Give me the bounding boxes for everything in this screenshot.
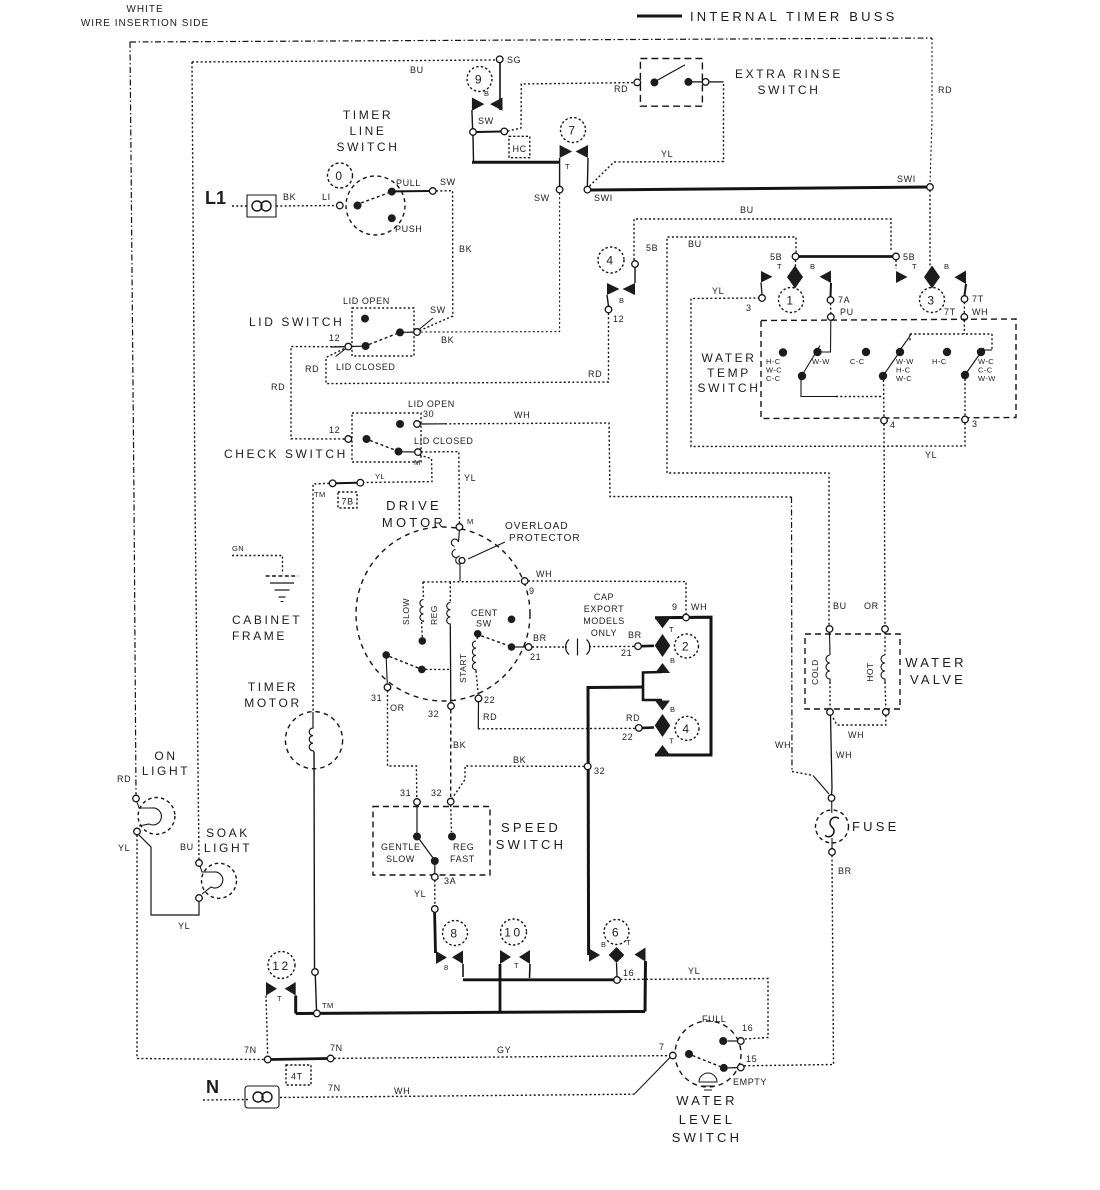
svg-text:START: START bbox=[458, 653, 468, 683]
svg-text:FAST: FAST bbox=[450, 854, 475, 864]
svg-text:RD: RD bbox=[483, 712, 497, 722]
node SG bbox=[496, 56, 503, 63]
node 32 (BK buss) bbox=[584, 763, 591, 770]
svg-text:6: 6 bbox=[612, 926, 621, 940]
svg-text:CAP: CAP bbox=[594, 592, 614, 602]
lid switch common contact and arm bbox=[331, 346, 345, 348]
timer contact number 12 bbox=[268, 952, 295, 979]
svg-text:SPEED: SPEED bbox=[501, 820, 561, 835]
svg-text:PULL: PULL bbox=[396, 178, 421, 188]
node: extra rinse left terminal RD bbox=[634, 79, 641, 86]
node 7T bbox=[961, 296, 968, 303]
internal timer buss: 7N link bbox=[271, 1059, 327, 1060]
svg-text:WH: WH bbox=[972, 307, 988, 317]
wire: BR from fuse to water level switch 15 bbox=[744, 855, 834, 1066]
svg-text:TIMER: TIMER bbox=[343, 108, 393, 122]
wire: 5B right node down to contact 3 bbox=[895, 260, 897, 269]
svg-text:12: 12 bbox=[613, 314, 624, 324]
wire: GN to cabinet frame ground bbox=[232, 556, 283, 575]
wire: WH from node 30 right and down bbox=[420, 423, 445, 425]
svg-text:7N: 7N bbox=[244, 1045, 257, 1055]
svg-text:YL: YL bbox=[712, 286, 724, 296]
svg-text:7N: 7N bbox=[330, 1043, 343, 1053]
svg-text:4T: 4T bbox=[291, 1072, 303, 1082]
svg-text:WH: WH bbox=[691, 602, 707, 612]
wire: section2 arm down to node 4 bbox=[883, 380, 886, 417]
svg-text:ON: ON bbox=[154, 749, 177, 763]
connector CO (N) bbox=[245, 1086, 279, 1108]
node 7N (right) bbox=[327, 1055, 334, 1062]
svg-text:MOTOR: MOTOR bbox=[244, 696, 301, 710]
internal timer buss: contact 2/4 frame bbox=[655, 617, 711, 755]
svg-text:LINE: LINE bbox=[349, 124, 386, 138]
timer cam contact 1 (triangle-diamond-triangle) bbox=[761, 271, 773, 283]
node TM a bbox=[329, 480, 336, 487]
svg-text:YL: YL bbox=[375, 472, 385, 481]
node SW2 bbox=[501, 128, 508, 135]
wire: WH cold valve down to fuse bbox=[831, 715, 833, 794]
svg-text:DRIVE: DRIVE bbox=[386, 498, 442, 513]
svg-text:5B: 5B bbox=[770, 252, 782, 262]
svg-text:3: 3 bbox=[746, 303, 752, 313]
svg-text:SWITCH: SWITCH bbox=[496, 837, 566, 852]
wire: OR from motor 31 to speed switch 31 bbox=[388, 691, 417, 799]
node 5B (contact 4 top) bbox=[632, 261, 639, 268]
node M (drive motor) bbox=[456, 524, 463, 531]
svg-text:RD: RD bbox=[305, 364, 319, 374]
svg-text:15: 15 bbox=[746, 1054, 757, 1064]
svg-text:BU: BU bbox=[180, 842, 194, 852]
node 16 (water level FULL) bbox=[738, 1038, 745, 1045]
wire: BK from connector to LI bbox=[276, 205, 336, 208]
timer cam contact 10 (bowtie) bbox=[500, 950, 511, 964]
wire: contact 10 right leg to 16 rail bbox=[529, 964, 532, 978]
svg-text:B: B bbox=[670, 656, 675, 665]
internal timer buss: 5B link bbox=[799, 255, 893, 258]
node SW (timer line switch output) bbox=[429, 188, 436, 195]
svg-text:LEVEL: LEVEL bbox=[679, 1112, 735, 1127]
wire: 7A to PU node bbox=[830, 303, 832, 313]
svg-text:M: M bbox=[414, 458, 421, 467]
node (fuse bottom) bbox=[829, 849, 836, 856]
fuse F1 bbox=[816, 810, 849, 843]
svg-text:5B: 5B bbox=[903, 252, 915, 262]
wire: RD diagonal from lid 12 down to contact 4 row bbox=[336, 349, 346, 357]
wire: YL from node 3 to contact 1 node 3 bbox=[691, 298, 965, 447]
wire: contact 7 right leg bbox=[586, 158, 589, 186]
node SW (under contact 7) bbox=[556, 186, 563, 193]
svg-text:TEMP: TEMP bbox=[707, 366, 751, 380]
node 30 bbox=[414, 421, 421, 428]
svg-text:N: N bbox=[206, 1077, 219, 1097]
wire: RD right side from top border down to SWI node bbox=[930, 38, 932, 184]
svg-text:32: 32 bbox=[428, 709, 439, 719]
REG winding bbox=[449, 582, 451, 602]
node 3 (water temp switch) bbox=[962, 416, 969, 423]
svg-text:EMPTY: EMPTY bbox=[733, 1077, 767, 1087]
svg-text:TIMER: TIMER bbox=[248, 680, 298, 694]
svg-text:BR: BR bbox=[628, 630, 642, 640]
node 12 (contact 4) bbox=[605, 306, 612, 313]
svg-text:T: T bbox=[277, 994, 282, 1003]
svg-text:1: 1 bbox=[786, 294, 795, 308]
wire: WH rail inside motor bbox=[423, 580, 522, 583]
wire: WH 7N row from connector to water level switch bbox=[280, 1094, 634, 1097]
svg-text:BU: BU bbox=[410, 65, 424, 75]
internal timer buss: SWI line to right side bbox=[591, 187, 927, 190]
svg-text:SW: SW bbox=[534, 193, 550, 203]
svg-text:SWITCH: SWITCH bbox=[698, 381, 761, 395]
internal timer buss: contact 9 to contact 7 bbox=[472, 161, 560, 164]
internal timer buss: BK from jog down to contact 6 bbox=[588, 687, 643, 955]
svg-text:5B: 5B bbox=[646, 243, 658, 253]
svg-text:7: 7 bbox=[659, 1042, 665, 1052]
svg-text:22: 22 bbox=[622, 732, 633, 742]
wire: YL from ON light to SOAK light bbox=[139, 835, 200, 916]
extra rinse switch box bbox=[640, 59, 702, 107]
node (cold valve bottom) bbox=[827, 709, 834, 716]
svg-text:SWITCH: SWITCH bbox=[672, 1130, 742, 1145]
svg-text:BK: BK bbox=[453, 740, 466, 750]
svg-text:VALVE: VALVE bbox=[910, 672, 966, 687]
node 21 (contact 2) bbox=[635, 643, 642, 650]
svg-text:YL: YL bbox=[178, 921, 190, 931]
node SWI right bbox=[927, 184, 934, 191]
svg-text:T: T bbox=[669, 737, 674, 746]
node 22 (contact 4) bbox=[636, 725, 643, 732]
wire link between SW nodes bbox=[476, 131, 501, 134]
node 7 (water level common) bbox=[670, 1052, 677, 1059]
svg-text:BR: BR bbox=[838, 866, 852, 876]
svg-text:T: T bbox=[777, 262, 782, 271]
wire: RD from SWI node down to contact 3 bbox=[929, 190, 931, 266]
svg-text:30: 30 bbox=[423, 409, 434, 419]
svg-text:T: T bbox=[912, 262, 917, 271]
internal timer buss: 16 rail bbox=[463, 978, 614, 981]
svg-text:LID CLOSED: LID CLOSED bbox=[336, 362, 396, 372]
timer cam contact 2 bbox=[655, 618, 670, 628]
node (hot valve bottom) bbox=[883, 709, 890, 716]
wire: L1 to connector CO bbox=[232, 205, 247, 207]
svg-text:WH: WH bbox=[775, 740, 791, 750]
svg-text:COLD: COLD bbox=[810, 659, 820, 685]
node 32 (drive motor) bbox=[448, 703, 455, 710]
timer cam contact 9 (bowtie) bbox=[472, 98, 485, 111]
node SW (lid switch output) bbox=[414, 329, 421, 336]
node YL (ON light) bbox=[134, 828, 141, 835]
node 12 (check switch) bbox=[345, 436, 352, 443]
svg-text:LIGHT: LIGHT bbox=[204, 841, 252, 855]
node 4 (water temp switch) bbox=[881, 417, 888, 424]
svg-text:RD: RD bbox=[938, 85, 952, 95]
svg-text:YL: YL bbox=[414, 889, 426, 899]
svg-text:SWITCH: SWITCH bbox=[758, 83, 821, 97]
svg-text:HC: HC bbox=[513, 144, 527, 154]
internal timer buss: TM rail bbox=[296, 1012, 645, 1014]
svg-text:INTERNAL TIMER BUSS: INTERNAL TIMER BUSS bbox=[690, 9, 897, 24]
svg-text:7: 7 bbox=[568, 124, 577, 138]
svg-text:SW: SW bbox=[476, 619, 492, 629]
wire: YL check switch M to drive motor M bbox=[421, 452, 460, 524]
svg-text:12: 12 bbox=[272, 959, 291, 973]
wire: node 32 to speed switch bbox=[452, 766, 584, 799]
node SWI bbox=[584, 186, 591, 193]
svg-text:7T: 7T bbox=[944, 307, 956, 317]
svg-text:SG: SG bbox=[507, 55, 521, 65]
svg-text:LI: LI bbox=[322, 192, 331, 202]
svg-text:T: T bbox=[669, 625, 674, 634]
svg-text:16: 16 bbox=[742, 1023, 753, 1033]
timer motor body bbox=[285, 712, 342, 769]
svg-text:W-W: W-W bbox=[812, 357, 830, 366]
svg-text:REG: REG bbox=[429, 605, 439, 625]
svg-text:10: 10 bbox=[504, 926, 523, 940]
wire: WH node 9 to contact 2 block bbox=[528, 581, 686, 614]
timer motor coil bbox=[309, 712, 314, 752]
overload protector bbox=[451, 530, 460, 564]
svg-text:RD: RD bbox=[271, 382, 285, 392]
check switch box bbox=[352, 413, 421, 462]
svg-text:HOT: HOT bbox=[865, 662, 875, 681]
svg-text:WATER: WATER bbox=[905, 655, 967, 670]
svg-text:2: 2 bbox=[682, 640, 691, 654]
svg-text:FULL: FULL bbox=[702, 1014, 726, 1024]
svg-text:3: 3 bbox=[972, 419, 978, 429]
connector HC bbox=[509, 136, 530, 157]
svg-text:OVERLOAD: OVERLOAD bbox=[505, 521, 569, 532]
svg-text:EXPORT: EXPORT bbox=[584, 604, 624, 614]
svg-text:16: 16 bbox=[623, 968, 634, 978]
timer contact number 7 bbox=[561, 118, 586, 143]
node 32 (speed switch) bbox=[447, 798, 454, 805]
svg-text:CABINET: CABINET bbox=[232, 613, 302, 627]
svg-text:TM: TM bbox=[322, 1001, 334, 1010]
svg-text:SWITCH: SWITCH bbox=[337, 140, 400, 154]
speed switch GENTLE/SLOW contact bbox=[416, 805, 418, 833]
svg-text:YL: YL bbox=[925, 450, 937, 460]
wire: BU upper run to contact 3 bbox=[634, 219, 891, 260]
node (hot valve top) bbox=[882, 626, 889, 633]
svg-text:9: 9 bbox=[475, 73, 484, 87]
timer contact number 6 bbox=[604, 920, 629, 945]
node 7A bbox=[827, 297, 834, 304]
node (fuse top) bbox=[828, 795, 835, 802]
svg-text:RD: RD bbox=[614, 84, 628, 94]
node: extra rinse right terminal bbox=[702, 79, 709, 86]
node TM b bbox=[357, 479, 364, 486]
node LI bbox=[337, 202, 344, 209]
capacitor (cap export models only) bbox=[532, 646, 567, 648]
svg-text:WHITE: WHITE bbox=[126, 4, 163, 15]
svg-text:YL: YL bbox=[464, 473, 476, 483]
svg-text:22: 22 bbox=[484, 695, 495, 705]
wire: contact 12 left leg down to 7N node bbox=[266, 996, 268, 1057]
wire: TM down to timer motor bbox=[313, 483, 329, 712]
svg-text:BR: BR bbox=[533, 633, 547, 643]
wire: BU lower run to contact 1 and water valve bbox=[667, 237, 829, 625]
svg-text:T: T bbox=[626, 938, 631, 947]
water level switch body bbox=[675, 1021, 741, 1087]
svg-text:BK: BK bbox=[459, 244, 472, 254]
node (cold valve top) bbox=[826, 626, 833, 633]
svg-text:LIGHT: LIGHT bbox=[142, 764, 190, 778]
timer contact number 3 bbox=[920, 288, 945, 313]
wire: SG down to contact 9 bbox=[499, 63, 501, 110]
wire: contact 1 left leg to node 3 bbox=[761, 283, 762, 295]
node 21 (drive motor) bbox=[525, 644, 532, 651]
svg-text:WH: WH bbox=[836, 750, 852, 760]
svg-text:LID OPEN: LID OPEN bbox=[408, 399, 455, 409]
svg-text:ONLY: ONLY bbox=[591, 628, 617, 638]
wire: YL from 3A down to contact 8 bbox=[434, 880, 436, 905]
lid switch box bbox=[352, 308, 414, 356]
timer contact number 9 bbox=[467, 67, 492, 92]
internal timer buss: jog between contacts 2 and 4 bbox=[643, 672, 662, 700]
svg-text:WATER: WATER bbox=[676, 1093, 738, 1108]
svg-text:7N: 7N bbox=[328, 1083, 341, 1093]
svg-text:BK: BK bbox=[513, 755, 526, 765]
motor 31 contact and arm bbox=[382, 651, 390, 659]
connector 7B bbox=[338, 492, 357, 508]
wire: WH hot valve to cold valve junction bbox=[832, 715, 886, 725]
timer contact number 2 bbox=[675, 634, 699, 658]
wire: timer motor down to TM node on buss bbox=[313, 752, 316, 968]
svg-text:LID CLOSED: LID CLOSED bbox=[414, 436, 474, 446]
svg-text:H-C: H-C bbox=[932, 357, 947, 366]
svg-text:TM: TM bbox=[314, 490, 326, 499]
wire: WH into water temp switch distribution bbox=[910, 320, 992, 349]
check switch LID OPEN contact bbox=[396, 420, 404, 428]
node M (check switch LID CLOSED output) bbox=[415, 449, 422, 456]
svg-text:SLOW: SLOW bbox=[401, 598, 411, 625]
wire: RD lid switch 12 to check switch 12 bbox=[291, 347, 345, 440]
node 9 (drive motor WH) bbox=[521, 578, 528, 585]
speed switch arm bbox=[420, 840, 434, 859]
wire: GY from 7N to water level switch 7 bbox=[334, 1056, 670, 1059]
svg-text:GENTLE: GENTLE bbox=[381, 842, 421, 852]
svg-text:LID OPEN: LID OPEN bbox=[343, 296, 390, 306]
wire: 5B down to contact 4 bbox=[634, 267, 636, 283]
svg-text:W-W: W-W bbox=[978, 374, 996, 383]
timer cam contact 6 (triangle-diamond-triangle) bbox=[589, 949, 600, 962]
svg-text:BU: BU bbox=[833, 601, 847, 611]
wire: SW/BK down to lid switch common bbox=[420, 191, 453, 331]
wire: extra rinse right down (YL) to SWI node bbox=[709, 81, 724, 83]
svg-text:LID SWITCH: LID SWITCH bbox=[249, 315, 344, 329]
svg-text:YL: YL bbox=[118, 843, 130, 853]
svg-text:B: B bbox=[944, 262, 949, 271]
svg-text:4: 4 bbox=[606, 254, 615, 268]
node 15 (water level EMPTY) bbox=[738, 1064, 745, 1071]
svg-text:SLOW: SLOW bbox=[386, 854, 415, 864]
timer cam contact 7 (bowtie) bbox=[560, 145, 573, 158]
timer contact number 8 bbox=[443, 921, 468, 946]
svg-text:32: 32 bbox=[594, 766, 605, 776]
svg-text:PROTECTOR: PROTECTOR bbox=[509, 533, 581, 544]
svg-text:B: B bbox=[619, 296, 624, 305]
svg-text:T: T bbox=[514, 961, 519, 970]
timer contact number 10 bbox=[501, 919, 527, 945]
svg-text:CENT: CENT bbox=[471, 608, 498, 618]
timer contact number 4 bbox=[598, 247, 624, 273]
node 16 (buss) bbox=[614, 977, 621, 984]
svg-text:FRAME: FRAME bbox=[232, 629, 287, 643]
svg-text:WH: WH bbox=[536, 569, 552, 579]
svg-text:GY: GY bbox=[497, 1045, 511, 1055]
svg-text:21: 21 bbox=[530, 652, 541, 662]
wire: contact 8 right leg to 16 buss bbox=[462, 964, 464, 977]
node 7N (junction diamond) bbox=[264, 1056, 271, 1063]
water valve box bbox=[805, 634, 900, 709]
svg-text:8: 8 bbox=[450, 927, 459, 941]
svg-text:BK: BK bbox=[283, 192, 296, 202]
wire: RD from contact 4 node 12 down/left to lid switch bbox=[326, 313, 609, 384]
node 3 (contact 1) bbox=[759, 295, 766, 302]
svg-text:8: 8 bbox=[444, 963, 449, 972]
water temp switch section 1 contacts bbox=[779, 348, 787, 356]
svg-text:YL: YL bbox=[661, 149, 673, 159]
node 3A bbox=[432, 874, 439, 881]
internal timer buss: contact 12 right leg to TM rail bbox=[294, 996, 297, 1014]
wire: contact 6 diamond to node 16 bbox=[616, 963, 619, 977]
svg-text:PU: PU bbox=[840, 307, 854, 317]
wire: 7T to WH node bbox=[963, 302, 965, 313]
svg-text:FUSE: FUSE bbox=[852, 819, 899, 834]
wire: RD from SW2 up and right to extra rinse switch bbox=[508, 83, 633, 132]
wire: contact 1 right leg to node 7A bbox=[830, 283, 833, 297]
svg-text:31: 31 bbox=[400, 788, 411, 798]
wire: PULL to SW node bbox=[395, 190, 429, 192]
timer cam contact 4 (lower) bbox=[655, 701, 670, 711]
svg-text:YL: YL bbox=[688, 966, 700, 976]
water temp switch box bbox=[761, 319, 1016, 419]
svg-text:7B: 7B bbox=[342, 497, 354, 507]
water level switch contacts bbox=[685, 1050, 693, 1058]
svg-text:WH: WH bbox=[394, 1086, 410, 1096]
svg-text:21: 21 bbox=[621, 648, 632, 658]
svg-text:4: 4 bbox=[890, 420, 896, 430]
wire: PU into water temp switch to W-W contact bbox=[821, 320, 831, 352]
extra rinse switch contacts bbox=[650, 78, 658, 86]
lid switch LID OPEN contact bbox=[361, 315, 369, 323]
svg-text:MODELS: MODELS bbox=[583, 616, 625, 626]
svg-text:RD: RD bbox=[626, 713, 640, 723]
node BU (SOAK light top) bbox=[196, 860, 203, 867]
svg-text:B: B bbox=[670, 705, 675, 714]
svg-text:RD: RD bbox=[117, 774, 131, 784]
svg-text:M: M bbox=[467, 517, 474, 526]
wire: TM from check switch M to timer motor nodes bbox=[364, 455, 433, 483]
svg-text:RD: RD bbox=[588, 369, 602, 379]
node 5B (left, contact 1) bbox=[792, 253, 799, 260]
svg-text:SW: SW bbox=[430, 305, 446, 315]
wire: section1 arm to section2 arm bbox=[801, 379, 836, 397]
node 12 (lid switch) bbox=[345, 343, 352, 350]
drive motor body bbox=[356, 527, 530, 701]
svg-text:L1: L1 bbox=[205, 188, 226, 208]
svg-text:9: 9 bbox=[672, 602, 678, 612]
timer cam contact 4 (bowtie) bbox=[607, 283, 620, 295]
wire: section3 arm down to node 3 bbox=[964, 379, 966, 416]
wire: outer harness top (white wire insertion side) bbox=[130, 38, 932, 42]
wire: outer harness left side / RD wire down to ON light bbox=[130, 42, 136, 795]
wire: contact 4 left leg to node 12 bbox=[607, 295, 609, 306]
SLOW winding bbox=[422, 582, 425, 599]
wire: OR from node 4 down to hot water valve bbox=[884, 424, 885, 625]
svg-text:OR: OR bbox=[390, 703, 405, 713]
svg-text:REG: REG bbox=[453, 842, 474, 852]
svg-text:EXTRA RINSE: EXTRA RINSE bbox=[735, 67, 843, 81]
